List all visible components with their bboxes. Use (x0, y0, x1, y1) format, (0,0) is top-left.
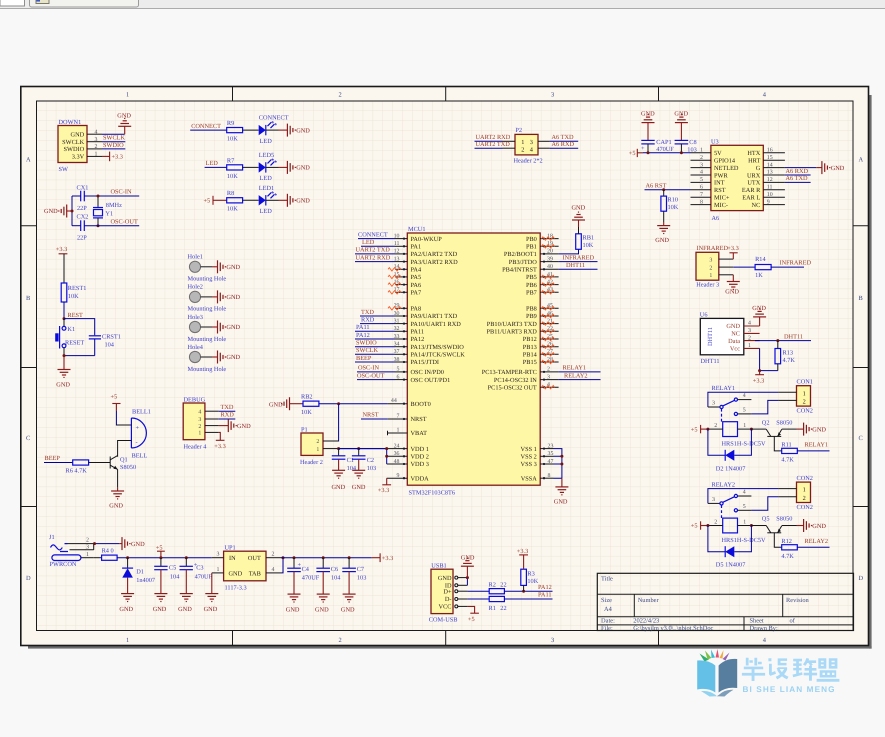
wire (201, 356, 212, 358)
svg-text:Hole2: Hole2 (188, 284, 203, 291)
svg-text:GND: GND (229, 570, 243, 577)
wire (504, 590, 552, 592)
svg-text:SWDIO: SWDIO (356, 340, 377, 347)
svg-text:J1: J1 (49, 534, 55, 541)
junction (466, 576, 469, 579)
svg-text:GND: GND (237, 423, 251, 430)
svg-text:PWR: PWR (714, 172, 728, 179)
svg-text:MIC-: MIC- (714, 202, 728, 209)
junction (126, 556, 129, 559)
wire (93, 544, 95, 550)
svg-text:DEBUG: DEBUG (184, 396, 206, 403)
mounting hole Hole3 (188, 314, 241, 343)
svg-text:8: 8 (700, 199, 703, 205)
wire (117, 488, 119, 491)
ground (58, 370, 71, 378)
svg-text:DHT11: DHT11 (784, 333, 803, 340)
U3 right pins 16-9 (742, 148, 785, 209)
wire (361, 418, 388, 420)
wire (760, 348, 778, 370)
svg-text:NRST: NRST (363, 412, 379, 419)
connector CON1 (778, 379, 813, 415)
junction (357, 447, 360, 450)
wire (282, 557, 372, 559)
resistor R8 with LED LED1 row (204, 185, 311, 215)
svg-text:Hole4: Hole4 (188, 344, 204, 351)
wire (243, 166, 259, 168)
wire (771, 266, 804, 268)
svg-text:470UF: 470UF (195, 573, 213, 580)
svg-text:2: 2 (700, 155, 703, 161)
svg-text:2: 2 (709, 265, 712, 271)
svg-text:3: 3 (700, 162, 703, 168)
svg-text:Revision: Revision (786, 597, 810, 604)
power +3.3 (56, 246, 68, 254)
capacitor C6 104 (316, 558, 341, 594)
wire (751, 497, 778, 511)
svg-text:D: D (859, 575, 864, 582)
svg-text:9: 9 (767, 199, 770, 205)
svg-text:OUT: OUT (248, 555, 261, 562)
relay coil HRS1H-S-DC5V (708, 422, 766, 448)
svg-text:GND: GND (554, 498, 568, 505)
junction (185, 556, 188, 559)
svg-text:20: 20 (547, 249, 553, 255)
svg-text:BOOT0: BOOT0 (411, 401, 431, 408)
svg-text:DHT11: DHT11 (707, 327, 714, 346)
wire (523, 555, 525, 569)
resistor R9 with LED CONNECT row (190, 115, 310, 145)
svg-text:10K: 10K (227, 173, 238, 180)
pins 4,3,2,1 of DOWN1 (87, 129, 102, 157)
svg-text:B: B (26, 295, 30, 302)
svg-text:16: 16 (767, 148, 773, 154)
capacitor CAP1 470uF (641, 123, 674, 154)
header P1 (Header 2) (300, 426, 339, 466)
svg-text:10K: 10K (227, 136, 238, 143)
svg-text:2: 2 (95, 144, 98, 150)
wire (72, 225, 81, 227)
svg-text:GND: GND (153, 606, 167, 613)
svg-text:GND: GND (655, 237, 669, 244)
wire (782, 428, 797, 430)
ground (205, 594, 218, 602)
svg-text:LED5: LED5 (259, 152, 274, 159)
wire (279, 129, 288, 131)
svg-text:4: 4 (700, 170, 703, 176)
svg-text:VSSA: VSSA (521, 475, 538, 482)
junction (750, 428, 753, 431)
svg-text:UART2 RXD: UART2 RXD (356, 254, 391, 261)
wire (355, 361, 395, 363)
ground (352, 470, 365, 478)
ground (332, 470, 345, 478)
junction (282, 556, 285, 559)
svg-text:+3.3: +3.3 (56, 246, 67, 253)
svg-text:LED: LED (260, 208, 273, 215)
svg-text:R4 0: R4 0 (102, 548, 114, 555)
relay section RELAY1 (691, 379, 830, 473)
svg-text:PA12: PA12 (411, 336, 425, 343)
header P2 (2x2) (503, 127, 550, 165)
svg-text:IN: IN (229, 555, 236, 562)
relay coil HRS1H-S-DC5V (708, 518, 766, 544)
wire (467, 598, 489, 600)
junction (71, 210, 74, 213)
svg-text:15: 15 (767, 155, 773, 161)
wire (751, 400, 778, 414)
wire (94, 339, 96, 356)
MCU pin NRST 7 (388, 413, 427, 423)
svg-text:C6: C6 (331, 566, 338, 573)
svg-text:4: 4 (198, 409, 201, 415)
ground (111, 491, 124, 499)
svg-text:Vcc: Vcc (730, 346, 740, 353)
svg-text:3: 3 (709, 257, 712, 263)
wire (559, 261, 598, 263)
svg-text:CON1: CON1 (797, 379, 813, 386)
svg-text:R12: R12 (781, 538, 792, 545)
svg-text:RELAY1: RELAY1 (563, 365, 587, 372)
wire (708, 429, 725, 455)
wire (797, 428, 804, 430)
wire (323, 404, 339, 441)
svg-text:PB2/BOOT1: PB2/BOOT1 (504, 251, 537, 258)
svg-text:GND: GND (812, 426, 826, 433)
svg-text:48: 48 (394, 459, 400, 465)
wire (578, 227, 580, 234)
junction (159, 556, 162, 559)
svg-text:PB5: PB5 (526, 274, 537, 281)
svg-text:103: 103 (357, 574, 366, 581)
svg-text:OSC-IN: OSC-IN (111, 189, 132, 196)
svg-text:104: 104 (170, 573, 180, 580)
svg-text:8: 8 (548, 473, 551, 479)
transistor Q2 S8050 (751, 419, 792, 436)
wire (339, 448, 386, 450)
svg-text:39: 39 (547, 256, 553, 262)
junction (758, 369, 761, 372)
svg-text:RELAY2: RELAY2 (564, 372, 588, 379)
svg-text:1: 1 (803, 487, 806, 494)
watermark chinese characters bi she lian meng (742, 658, 839, 682)
svg-text:Sheet: Sheet (750, 618, 764, 625)
svg-text:Header 2*2: Header 2*2 (514, 157, 543, 164)
resistor R4 0 (94, 548, 117, 561)
ground (657, 226, 670, 234)
svg-text:Mounting Hole: Mounting Hole (188, 336, 227, 343)
svg-text:Q1: Q1 (120, 456, 128, 463)
svg-text:1: 1 (86, 552, 89, 558)
svg-text:LED: LED (260, 138, 273, 145)
ground (287, 194, 295, 207)
resistor R13 4.7K (775, 341, 795, 371)
MCU pins VDD 1/2/3 VDDA (387, 443, 429, 482)
wire (504, 598, 552, 600)
svg-text:LED1: LED1 (259, 185, 274, 192)
svg-text:C1: C1 (347, 457, 354, 464)
svg-text:+: + (136, 425, 140, 432)
wire (84, 195, 139, 197)
svg-text:INFRARED: INFRARED (697, 245, 729, 252)
power +3.3 (380, 553, 393, 562)
wire (733, 266, 755, 268)
wire (782, 525, 797, 527)
power +5 (691, 521, 701, 529)
svg-text:PA9/UART1 TXD: PA9/UART1 TXD (411, 313, 458, 320)
transistor Q5 S8050 (751, 516, 792, 533)
svg-text:1: 1 (217, 567, 220, 573)
svg-text:UP1: UP1 (225, 544, 236, 551)
svg-text:1: 1 (700, 148, 703, 154)
svg-text:PA5: PA5 (411, 274, 422, 281)
svg-text:UART2 RXD: UART2 RXD (476, 134, 511, 141)
svg-text:Header 2: Header 2 (300, 459, 323, 466)
wire (355, 261, 395, 263)
svg-text:HTX: HTX (747, 150, 760, 157)
capacitor CX1 (77, 184, 89, 212)
svg-text:TXD: TXD (221, 404, 234, 411)
buzzer BELL1 (131, 408, 150, 459)
svg-text:R10: R10 (668, 197, 679, 204)
svg-text:CAP1: CAP1 (656, 139, 671, 146)
svg-text:1n4007: 1n4007 (136, 577, 155, 584)
wire (797, 546, 829, 548)
svg-text:VBAT: VBAT (411, 430, 428, 437)
svg-text:10K: 10K (527, 578, 538, 585)
svg-text:PA3/UART2 RXD: PA3/UART2 RXD (411, 259, 459, 266)
svg-text:GND: GND (109, 503, 123, 510)
resistor RB1 10K (576, 234, 594, 250)
ground (121, 594, 134, 602)
svg-text:A6: A6 (712, 215, 720, 222)
svg-text:R8: R8 (227, 190, 234, 197)
svg-text:2: 2 (714, 423, 717, 429)
ground (461, 558, 474, 566)
wire (372, 557, 380, 559)
ground (804, 519, 812, 532)
wire (72, 195, 81, 197)
svg-text:+3.3: +3.3 (378, 487, 389, 494)
svg-text:2: 2 (547, 367, 550, 373)
wire (360, 315, 395, 317)
svg-text:D: D (26, 575, 31, 582)
wire (701, 428, 708, 430)
svg-text:13: 13 (767, 170, 773, 176)
svg-text:1: 1 (198, 431, 201, 437)
svg-text:6: 6 (397, 374, 400, 380)
wire (774, 436, 781, 451)
svg-text:PB3/JTDO: PB3/JTDO (509, 259, 537, 266)
svg-text:GPIO14: GPIO14 (714, 158, 736, 165)
ground (288, 594, 301, 602)
transistor Q1 S8050 (110, 456, 136, 471)
svg-text:9: 9 (397, 473, 400, 479)
svg-text:+3.3: +3.3 (517, 548, 528, 555)
mounting hole Hole2 (188, 284, 241, 313)
MCU left pins PA0..PA15, OSC (394, 233, 466, 383)
wire (643, 152, 691, 154)
svg-text:+3.3: +3.3 (214, 443, 225, 450)
svg-text:Mounting Hole: Mounting Hole (188, 306, 227, 313)
svg-text:2: 2 (316, 439, 319, 445)
svg-text:Hole3: Hole3 (188, 314, 203, 321)
svg-text:CON2: CON2 (797, 504, 813, 511)
svg-text:Data: Data (728, 338, 740, 345)
capacitor CX2 (77, 214, 89, 242)
svg-text:SWDIO: SWDIO (103, 142, 124, 149)
wire (708, 502, 720, 504)
svg-text:R3: R3 (527, 570, 534, 577)
svg-text:BI SHE LIAN MENG: BI SHE LIAN MENG (743, 685, 836, 694)
module U3 (A6) body (711, 139, 763, 223)
svg-text:2: 2 (521, 146, 524, 153)
wire (386, 478, 388, 485)
svg-text:UART2 TXD: UART2 TXD (356, 247, 391, 254)
wire (785, 174, 811, 176)
svg-text:3: 3 (712, 401, 715, 407)
svg-text:CRST1: CRST1 (102, 333, 121, 340)
svg-text:4: 4 (743, 393, 746, 399)
svg-text:CONNECT: CONNECT (191, 123, 221, 130)
junction (560, 463, 563, 466)
power +3.3 at VDDA (378, 478, 391, 494)
svg-text:CX2: CX2 (77, 214, 89, 221)
power jack J1 PWRCON (49, 534, 94, 568)
svg-text:Q2: Q2 (762, 419, 770, 426)
wire (219, 425, 229, 427)
resistor R7 (227, 165, 243, 170)
svg-text:Date:: Date: (601, 618, 615, 625)
wire (466, 578, 468, 586)
wire (358, 238, 395, 240)
wire (357, 371, 395, 373)
svg-text:3: 3 (198, 417, 201, 423)
wire (751, 525, 766, 527)
svg-text:PC13-TAMPER-RTC: PC13-TAMPER-RTC (482, 369, 537, 376)
svg-text:-: - (136, 439, 138, 446)
svg-text:GND: GND (461, 554, 475, 561)
svg-text:10K: 10K (583, 242, 594, 249)
junction (560, 455, 563, 458)
wire (708, 526, 725, 552)
border zone ticks and labels (21, 87, 869, 646)
resistor R2 22 (489, 582, 507, 594)
junction (385, 447, 388, 450)
svg-text:1: 1 (397, 427, 400, 433)
svg-text:Header 4: Header 4 (184, 443, 208, 450)
junction (647, 151, 650, 154)
svg-text:4: 4 (95, 129, 98, 135)
wire (559, 249, 579, 254)
wire (637, 152, 643, 154)
wire (266, 199, 279, 201)
wire (63, 348, 65, 356)
svg-text:LED: LED (260, 175, 273, 182)
svg-text:GND: GND (131, 541, 145, 548)
wire (360, 323, 395, 325)
svg-text:24: 24 (394, 443, 400, 449)
svg-text:+3.3: +3.3 (112, 154, 123, 161)
svg-text:RELAY1: RELAY1 (805, 442, 829, 449)
ground (154, 594, 167, 602)
svg-text:OSC-OUT: OSC-OUT (111, 218, 138, 225)
svg-text:104: 104 (331, 574, 341, 581)
ground (218, 260, 226, 273)
wire (355, 346, 395, 348)
junction (776, 339, 779, 342)
svg-text:D+: D+ (443, 588, 452, 595)
svg-text:G:\bysjlm v3.0\..\nbiot.SchDoc: G:\bysjlm v3.0\..\nbiot.SchDoc (633, 625, 713, 632)
svg-text:PA11: PA11 (411, 329, 425, 336)
svg-text:C7: C7 (357, 566, 364, 573)
svg-text:G: G (756, 165, 761, 172)
svg-text:R11: R11 (781, 441, 791, 448)
junction (97, 224, 100, 227)
resistor R14 1K (755, 256, 771, 279)
power +5 (156, 544, 165, 557)
svg-text:Hole1: Hole1 (188, 254, 203, 261)
svg-text:1: 1 (316, 447, 319, 453)
ground (804, 423, 812, 436)
svg-text:REST: REST (68, 312, 84, 319)
ground (122, 537, 130, 550)
resistor R6 4.7K (66, 460, 89, 474)
svg-text:+5: +5 (204, 198, 211, 205)
wire (117, 469, 119, 487)
wire (357, 379, 395, 381)
svg-text:A6 RXD: A6 RXD (552, 141, 575, 148)
ground (218, 351, 226, 364)
resistor R10 10K (661, 190, 679, 222)
capacitor C7 103 (342, 558, 366, 594)
junction (348, 556, 351, 559)
wire (816, 167, 822, 169)
svg-text:UART2 TXD: UART2 TXD (476, 141, 511, 148)
pushbutton K1 RESET (55, 326, 84, 349)
no-connect markers PA4..PA7 (388, 268, 401, 310)
svg-text:7: 7 (700, 192, 703, 198)
svg-text:104: 104 (105, 341, 115, 348)
capacitor C2 103 (352, 449, 376, 472)
svg-text:OSC-OUT: OSC-OUT (357, 372, 384, 379)
wire (243, 199, 259, 201)
svg-text:470UF: 470UF (656, 146, 674, 153)
wire (475, 147, 503, 149)
ground (753, 309, 766, 317)
svg-text:RESET: RESET (65, 339, 84, 346)
svg-text:+3.3: +3.3 (727, 245, 738, 252)
MCU U1 STM32F103C8T6 body (407, 226, 540, 496)
svg-text:4: 4 (272, 567, 275, 573)
ground (727, 282, 740, 290)
svg-text:22P: 22P (77, 205, 87, 212)
ground (228, 419, 236, 432)
resistor R8 (227, 198, 243, 203)
svg-text:+5: +5 (111, 393, 118, 400)
svg-text:GND: GND (341, 606, 355, 613)
svg-text:GND: GND (725, 289, 739, 296)
wire (797, 450, 829, 452)
svg-text:+5: +5 (468, 616, 475, 623)
svg-text:GND: GND (226, 354, 240, 361)
svg-text:GND: GND (831, 165, 845, 172)
junction (680, 151, 683, 154)
capacitor C4 470UF (287, 558, 320, 594)
wire (201, 326, 212, 328)
svg-text:40: 40 (547, 264, 553, 270)
ground (118, 118, 131, 126)
